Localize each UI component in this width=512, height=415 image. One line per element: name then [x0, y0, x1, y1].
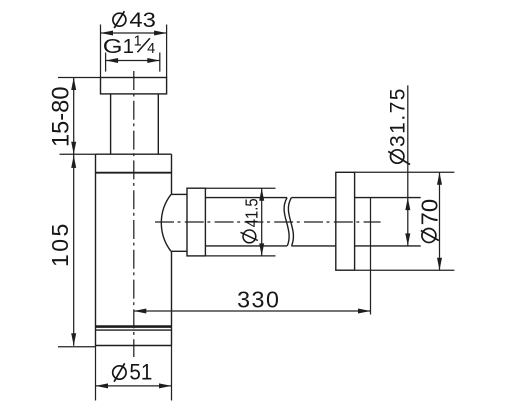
dim G1/4 line [106, 60, 160, 62]
dim Ø31.75 leader line [407, 85, 409, 246]
dim 15-80 line [73, 78, 75, 155]
svg-text:330: 330 [237, 287, 279, 313]
arrow 15-80 bottom [71, 142, 76, 155]
dim 105 bottom extension [58, 346, 96, 348]
arrow 105 bottom [71, 333, 76, 346]
outlet pipe bottom wall segment 3 [355, 245, 421, 247]
label Ø51 [113, 360, 153, 385]
svg-text:51: 51 [129, 360, 152, 385]
dim 105 line [73, 154, 75, 346]
body collar top edge [96, 153, 172, 155]
outlet dome arc [161, 194, 171, 251]
arrow 330 right [358, 309, 371, 314]
label Ø43 [113, 8, 156, 32]
dim Ø41.5 bottom extension [205, 255, 275, 257]
arrow 330 left [134, 309, 147, 314]
svg-text:G: G [103, 35, 123, 58]
svg-text:70: 70 [416, 199, 442, 226]
dim Ø51 extension right [171, 346, 173, 401]
pipe break left curve [284, 198, 289, 246]
dim 15-80 bottom extension [60, 153, 96, 155]
arrow Ø31.75 top [405, 198, 410, 211]
outlet pipe top wall segment 1 [205, 197, 287, 199]
arrow Ø41.5 top [259, 188, 264, 201]
inlet pipe right wall [157, 94, 159, 154]
horizontal centerline [155, 221, 381, 223]
arrow Ø51 right [159, 383, 172, 388]
dim Ø51 extension left [95, 346, 97, 401]
svg-text:105: 105 [47, 224, 73, 267]
wall flange [336, 172, 355, 270]
outlet pipe top wall segment 2 [291, 197, 335, 199]
label Ø70 [416, 199, 442, 243]
arrow Ø70 top [437, 172, 442, 185]
arrow 105 top [71, 155, 76, 168]
inlet pipe left wall [110, 94, 112, 154]
arrow Ø70 bottom [437, 258, 442, 271]
vertical centerline [133, 71, 135, 357]
dim 330 line [134, 310, 371, 312]
body bottom edge [96, 345, 172, 347]
svg-text:1: 1 [123, 35, 134, 58]
collar-body joint line [96, 172, 172, 174]
arrow Ø43 left [101, 31, 114, 36]
arrow Ø51 left [96, 383, 109, 388]
outlet nut [187, 188, 205, 256]
body left edge [95, 154, 97, 345]
arrow 15-80 top [71, 78, 76, 91]
outlet pipe bottom wall segment 1 [205, 245, 287, 247]
label Ø41.5 [241, 198, 262, 243]
dim 15-80 top extension [58, 77, 101, 79]
dim Ø70 line [439, 172, 441, 270]
arrow Ø31.75 bottom [405, 233, 410, 246]
dim Ø43 extension right [166, 25, 168, 78]
outlet pipe top wall segment 3 [355, 197, 421, 199]
arrow G1/4 right [147, 58, 160, 63]
dim Ø43 extension left [100, 25, 102, 78]
dome-to-nut bottom connector [171, 250, 187, 252]
arrow Ø43 right [154, 31, 167, 36]
label G 1 1/4 [103, 34, 155, 58]
svg-text:31.75: 31.75 [387, 88, 410, 147]
svg-text:1: 1 [134, 34, 142, 50]
dim 330 right extension [370, 198, 372, 315]
dim Ø70 bottom extension [355, 269, 455, 271]
bottom cup ring line lower [96, 329, 172, 331]
dim Ø70 top extension [355, 171, 455, 173]
pipe break right curve [288, 198, 293, 246]
dim G1/4 extension right [159, 53, 161, 72]
dome-to-nut top connector [171, 193, 187, 195]
outlet pipe bottom wall segment 2 [291, 245, 335, 247]
body right edge lower segment [171, 251, 173, 345]
arrow G1/4 left [106, 58, 119, 63]
svg-text:15-80: 15-80 [47, 87, 74, 148]
svg-text:41.5: 41.5 [241, 198, 261, 227]
dim G1/4 extension left [105, 53, 107, 72]
top nut flange [101, 78, 167, 94]
label Ø31.75 [387, 88, 410, 164]
svg-text:43: 43 [129, 8, 156, 32]
dim Ø51 line [96, 385, 172, 387]
body right edge upper segment [171, 154, 173, 194]
dim Ø43 line [101, 32, 167, 34]
arrow Ø41.5 bottom [259, 243, 264, 256]
dim Ø41.5 top extension [205, 187, 275, 189]
svg-text:4: 4 [147, 41, 155, 57]
bottom cup ring line upper [96, 325, 172, 328]
dim Ø41.5 line [261, 188, 263, 256]
